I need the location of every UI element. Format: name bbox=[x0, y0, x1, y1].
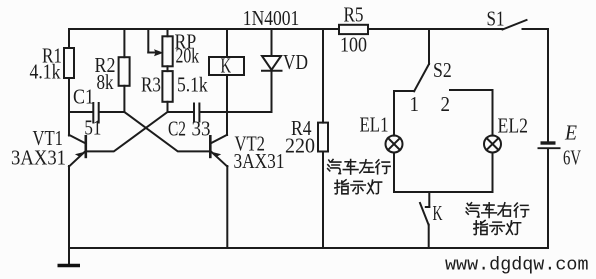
svg-text:R5: R5 bbox=[344, 3, 364, 27]
ground bar bbox=[58, 264, 81, 268]
wire: RP top stub bbox=[167, 29, 169, 36]
wire: R3 bottom to junction J3 bbox=[167, 102, 169, 112]
wire: lamp join rail bbox=[394, 191, 493, 193]
battery E long thin plate bbox=[538, 147, 561, 149]
lamp EL2 bbox=[484, 136, 501, 153]
wire: left rail top (to R1) bbox=[68, 29, 70, 48]
RP wiper stub from top rail bbox=[147, 29, 149, 53]
label 指示灯 (line 2 of right indicator text) bbox=[474, 220, 521, 234]
svg-text:3AX31: 3AX31 bbox=[11, 146, 66, 170]
resistor R1 box bbox=[64, 48, 74, 78]
svg-text:3AX31: 3AX31 bbox=[234, 149, 285, 173]
svg-text:1: 1 bbox=[410, 92, 420, 116]
label 汽车右行 (line 1 of right indicator text) bbox=[466, 203, 529, 218]
K switch tick bbox=[426, 206, 430, 208]
svg-text:1N4001: 1N4001 bbox=[243, 6, 299, 30]
wire: R4 branch top bbox=[322, 29, 324, 123]
RP wiper arrow line bbox=[148, 52, 156, 54]
svg-text:2: 2 bbox=[441, 92, 451, 116]
resistor R4 box bbox=[318, 123, 328, 152]
svg-text:C2: C2 bbox=[168, 117, 186, 141]
wire: R1 bottom to VT1 collector junction bbox=[68, 78, 70, 136]
wire: EL1 lower bbox=[393, 153, 395, 193]
diode VD triangle bbox=[262, 56, 281, 70]
switch S2 blade bbox=[414, 64, 429, 91]
svg-text:E: E bbox=[564, 121, 577, 145]
wire: S2 stub from top rail bbox=[428, 29, 430, 64]
wire: S1 right contact to top-right corner bbox=[523, 28, 549, 30]
transistor VT1 base bar bbox=[85, 135, 88, 158]
resistor R2 box bbox=[119, 57, 130, 86]
lamp EL1 bbox=[386, 136, 403, 153]
wire: right rail upper (to battery) bbox=[547, 29, 549, 141]
wire: C1 left segment from left rail bbox=[69, 111, 93, 113]
svg-text:51: 51 bbox=[84, 116, 101, 140]
wire: relay coil branch top bbox=[226, 29, 228, 57]
wire: R2 bottom to junction J2 bbox=[123, 86, 125, 112]
wire: RP to R3 stub bbox=[167, 66, 169, 71]
label 汽车左行 (line 1 of left indicator text) bbox=[328, 159, 391, 174]
battery E short thick plate bbox=[541, 141, 556, 144]
wire: top rail left segment (from left rail to R5) bbox=[69, 28, 339, 30]
wire: EL2 branch upper bbox=[492, 90, 494, 136]
wire: VT1 emitter to bottom rail bbox=[68, 166, 70, 248]
wire: relay coil bottom down through junction to VT2 collector bbox=[226, 75, 228, 135]
wire: cross coupling diagonal J3 to VT1 base bbox=[86, 112, 167, 151]
wire: EL2 lower bbox=[492, 153, 494, 193]
wire: R2 branch top bbox=[123, 29, 125, 57]
wire: R4 bottom to bottom rail bbox=[322, 152, 324, 249]
wire: cross coupling diagonal J2 to VT2 base bbox=[124, 112, 209, 151]
svg-text:33: 33 bbox=[192, 117, 211, 141]
RP wiper arrowhead bbox=[154, 49, 164, 56]
wire: S2 contact 2 bbox=[450, 89, 493, 91]
transistor VT2 collector diagonal bbox=[210, 135, 227, 144]
switch S1 blade bbox=[503, 20, 527, 30]
svg-text:5.1k: 5.1k bbox=[177, 73, 208, 97]
transistor VT1 emitter arrowhead bbox=[75, 152, 85, 157]
svg-text:K: K bbox=[433, 201, 443, 225]
wire: C2 left segment from J3 bbox=[168, 111, 194, 113]
wire: bottom rail bbox=[69, 247, 548, 249]
svg-text:6V: 6V bbox=[563, 146, 581, 170]
svg-text:S1: S1 bbox=[487, 7, 505, 31]
svg-text:20k: 20k bbox=[176, 44, 200, 68]
relay contact K blade bbox=[420, 203, 429, 225]
transistor VT2 emitter arrowhead bbox=[211, 152, 221, 157]
svg-text:R3: R3 bbox=[141, 73, 161, 97]
svg-text:www.dgdqw.com: www.dgdqw.com bbox=[445, 255, 589, 276]
wire: C1 right segment to J2 bbox=[99, 111, 124, 113]
transistor VT2 emitter diagonal bbox=[210, 151, 227, 167]
svg-text:EL2: EL2 bbox=[498, 114, 529, 138]
svg-text:S2: S2 bbox=[433, 58, 452, 82]
wire: K switch stub bbox=[428, 192, 430, 207]
wire: VD cathode down to node wire bbox=[271, 71, 273, 112]
wire: VT2 emitter to bottom rail bbox=[226, 166, 228, 248]
label 指示灯 (line 2 of left indicator text) bbox=[335, 180, 382, 194]
transistor VT2 base bar bbox=[209, 135, 212, 158]
wire: C2 right segment to VD node bbox=[200, 111, 271, 113]
wire: VD branch top bbox=[271, 29, 273, 56]
transistor VT1 emitter diagonal bbox=[69, 151, 86, 167]
svg-text:EL1: EL1 bbox=[360, 113, 389, 137]
ground stub bbox=[68, 248, 70, 264]
wire: K contact to bottom rail bbox=[428, 225, 430, 248]
svg-text:220: 220 bbox=[285, 134, 315, 158]
resistor R3 box bbox=[162, 71, 172, 102]
transistor VT1 collector diagonal bbox=[69, 135, 86, 144]
wire: top rail from R5 to S1 left contact bbox=[368, 28, 503, 30]
resistor R5 box bbox=[339, 25, 368, 34]
wire: EL1 branch upper bbox=[393, 91, 395, 136]
potentiometer RP box bbox=[162, 36, 172, 66]
svg-text:4.1k: 4.1k bbox=[30, 60, 61, 84]
svg-text:8k: 8k bbox=[97, 70, 114, 94]
svg-text:C1: C1 bbox=[73, 85, 94, 109]
svg-text:K: K bbox=[221, 54, 232, 78]
svg-text:100: 100 bbox=[340, 33, 367, 57]
wire: S2 contact 1 bbox=[394, 90, 414, 92]
capacitor C2 plates bbox=[194, 104, 199, 122]
diode VD cathode bar bbox=[262, 70, 282, 72]
wire: right rail lower (battery to bottom rail) bbox=[547, 149, 549, 248]
relay K coil box bbox=[209, 57, 244, 75]
capacitor C1 plates bbox=[93, 103, 98, 123]
svg-text:VD: VD bbox=[283, 50, 308, 74]
